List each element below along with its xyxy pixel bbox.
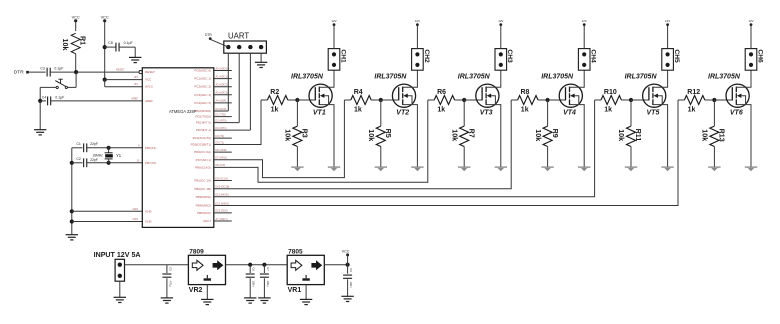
wire node down to switch: [75, 72, 77, 87]
svg-text:AREF: AREF: [131, 97, 138, 100]
transistor VT3 IRL3705N: [476, 84, 499, 107]
svg-text:DTR: DTR: [14, 70, 24, 76]
wire VR1 tab to ground: [305, 285, 307, 299]
svg-text:D0 (RXD): D0 (RXD): [216, 108, 227, 111]
svg-text:1k: 1k: [521, 107, 529, 114]
capacitor C3: [46, 68, 48, 77]
wire UART pin3: [249, 53, 251, 130]
svg-text:10k: 10k: [701, 129, 710, 141]
regulator VR1 7805: [287, 255, 324, 284]
svg-text:CH3: CH3: [506, 49, 513, 63]
switch S1 (reset button): [67, 86, 76, 88]
ground (R3): [291, 166, 303, 168]
svg-text:CH6: CH6: [756, 49, 763, 63]
ground (VT1 source): [328, 166, 340, 168]
wire junction to gate bar: [464, 99, 482, 101]
svg-text:PB1(OC 1A): PB1(OC 1A): [194, 179, 211, 183]
svg-text:1k: 1k: [354, 107, 362, 114]
svg-text:DTR: DTR: [205, 33, 212, 37]
resistor R6: [434, 96, 454, 105]
wire source 3: [486, 105, 501, 167]
svg-text:A3 (ADC3): A3 (ADC3): [216, 92, 228, 95]
wire CH6 to 12V: [750, 26, 752, 49]
crystal Y1: [108, 148, 110, 153]
svg-text:CH5: CH5: [673, 49, 680, 63]
svg-text:R4: R4: [354, 89, 363, 96]
svg-text:C2: C2: [76, 157, 81, 161]
wire rail down: [39, 101, 41, 130]
node gate junction 5: [629, 98, 633, 102]
svg-text:VCC: VCC: [72, 15, 80, 20]
svg-text:D11 (MOSI): D11 (MOSI): [216, 194, 229, 197]
ground (C5): [161, 297, 173, 299]
svg-text:R5: R5: [384, 129, 393, 138]
resistor R12: [684, 96, 704, 105]
capacitor C9: [347, 265, 349, 274]
svg-text:D3 (INT1): D3 (INT1): [216, 127, 227, 130]
resistor R13: [713, 100, 715, 126]
node XTAL2: [107, 161, 111, 165]
node XTAL1: [107, 146, 111, 150]
wire drain 2: [403, 70, 418, 87]
ground (UART): [255, 61, 267, 63]
svg-text:1k: 1k: [688, 107, 696, 114]
svg-text:A0 (ADC0): A0 (ADC0): [216, 67, 228, 70]
resistor R10: [601, 96, 621, 105]
capacitor C8: [105, 46, 116, 48]
svg-text:IRL3705N: IRL3705N: [291, 73, 324, 80]
svg-text:7805: 7805: [288, 249, 303, 256]
wire DTR diagonal: [211, 40, 229, 48]
svg-text:CH2: CH2: [423, 49, 430, 63]
svg-text:R12: R12: [687, 89, 700, 96]
capacitor C5: [166, 265, 168, 273]
connector CH6: [745, 49, 757, 71]
ground (VT5 source): [661, 166, 673, 168]
wire DTR to C3: [29, 71, 46, 73]
wire GND pins: [70, 209, 74, 213]
resistor R4: [351, 96, 371, 105]
resistor R8: [518, 96, 538, 105]
power flag VCC (out): [347, 256, 349, 265]
wire bus D12 to VT6 gate: [213, 100, 678, 206]
svg-text:PB4(MISO): PB4(MISO): [196, 204, 211, 208]
svg-text:GND: GND: [145, 220, 153, 224]
svg-text:10k: 10k: [450, 129, 459, 141]
wire UART pin2: [238, 53, 240, 122]
wire junction to gate bar: [548, 99, 566, 101]
svg-text:16MHz: 16MHz: [92, 154, 103, 158]
svg-text:VCC: VCC: [342, 249, 350, 253]
wire bus D8 to VT3 gate: [213, 100, 428, 182]
svg-text:10k: 10k: [284, 129, 293, 141]
node C7: [262, 263, 266, 267]
ground (C9): [341, 295, 353, 297]
node gate junction 1: [295, 98, 299, 102]
svg-text:12V: 12V: [415, 19, 420, 23]
node gate junction 6: [712, 98, 716, 102]
connector CH3: [495, 49, 507, 71]
wire CH5 to 12V: [667, 26, 669, 49]
svg-text:R3: R3: [301, 129, 310, 138]
ground (C8): [129, 56, 141, 58]
svg-text:R9: R9: [551, 129, 560, 138]
svg-text:PD4(XCK/T0): PD4(XCK/T0): [193, 136, 211, 140]
wire drain 5: [653, 70, 668, 87]
svg-text:12V: 12V: [331, 19, 336, 23]
svg-text:R13: R13: [718, 129, 727, 142]
svg-text:D5 (T1): D5 (T1): [216, 141, 225, 144]
ground (VR1): [300, 298, 312, 300]
svg-text:C7: C7: [266, 267, 270, 271]
node gate junction 4: [546, 98, 550, 102]
svg-text:GND: GND: [132, 218, 138, 221]
svg-text:10k: 10k: [61, 39, 70, 51]
svg-text:VT2: VT2: [396, 109, 409, 116]
svg-text:D10 (OC1B): D10 (OC1B): [216, 186, 230, 189]
svg-text:PB3(MOSI): PB3(MOSI): [196, 195, 211, 199]
svg-text:PC4(ADC 4): PC4(ADC 4): [194, 101, 211, 105]
ground (R11): [625, 166, 637, 168]
power flag 12V (3): [499, 23, 502, 26]
svg-text:A7 (ADC7): A7 (ADC7): [216, 218, 228, 221]
connector CH1: [328, 49, 340, 71]
svg-text:470µ: 470µ: [168, 281, 172, 287]
svg-text:D2 (INT0): D2 (INT0): [216, 119, 227, 122]
svg-text:100n: 100n: [252, 281, 256, 287]
node C6: [248, 263, 252, 267]
svg-text:Y1: Y1: [116, 153, 122, 158]
wire drain 1: [319, 70, 334, 87]
svg-text:A1 (ADC1): A1 (ADC1): [216, 75, 228, 78]
ground (VR2): [201, 298, 213, 300]
wire bus D11 to VT5 gate: [213, 100, 595, 197]
connector CH5: [662, 49, 674, 71]
svg-text:UART: UART: [228, 32, 249, 41]
svg-text:PB6(X1): PB6(X1): [145, 146, 156, 150]
wire source 6: [736, 105, 751, 167]
svg-text:12V: 12V: [665, 19, 670, 23]
svg-text:GND: GND: [132, 208, 138, 211]
svg-text:R7: R7: [467, 129, 476, 138]
node reset junction: [74, 70, 78, 74]
transistor VT2 IRL3705N: [392, 84, 415, 107]
wire C3 to node: [50, 71, 76, 73]
wire UART pin4 to ground: [260, 53, 262, 62]
svg-text:CH4: CH4: [590, 49, 597, 63]
svg-text:VR1: VR1: [288, 287, 302, 294]
svg-text:+5V: +5V: [133, 76, 138, 79]
svg-text:D1 (TXD): D1 (TXD): [216, 113, 227, 116]
capacitor C7: [263, 265, 265, 273]
svg-text:1k: 1k: [604, 107, 612, 114]
svg-text:VCC: VCC: [145, 78, 152, 82]
wire R1 to reset node: [75, 54, 77, 72]
svg-text:0.1µF: 0.1µF: [54, 67, 63, 71]
svg-text:7809: 7809: [189, 249, 204, 256]
svg-text:PB7(X2): PB7(X2): [145, 161, 156, 165]
svg-text:10k: 10k: [367, 129, 376, 141]
svg-text:C5: C5: [168, 267, 172, 271]
svg-text:VR2: VR2: [189, 287, 203, 294]
resistor R11: [630, 100, 632, 126]
wire VR2 tab to ground: [206, 285, 208, 299]
wire gate 4: [511, 99, 517, 101]
wire XTAL1 to IC: [109, 147, 143, 149]
svg-text:100µ: 100µ: [266, 281, 270, 287]
ground (VT4 source): [578, 166, 590, 168]
wire source 2: [403, 105, 418, 167]
wire CH3 to 12V: [500, 26, 502, 49]
wire VCC rail down: [104, 22, 106, 80]
wire C8 to ground: [119, 46, 135, 48]
ground (R5): [375, 166, 387, 168]
wire junction to gate bar: [631, 99, 649, 101]
svg-text:R11: R11: [634, 129, 643, 142]
svg-text:PD2(INT 0): PD2(INT 0): [196, 121, 211, 125]
svg-text:IRL3705N: IRL3705N: [458, 73, 491, 80]
svg-text:12V: 12V: [582, 19, 587, 23]
power flag 12V (1): [333, 23, 336, 26]
regulator VR2 7809: [188, 255, 225, 284]
svg-text:VT6: VT6: [730, 109, 743, 116]
svg-text:D6 (AIN0): D6 (AIN0): [216, 149, 227, 152]
svg-text:0.1µF: 0.1µF: [55, 95, 64, 99]
svg-text:CH1: CH1: [339, 49, 346, 63]
svg-text:PD5(OC0B/T1): PD5(OC0B/T1): [191, 143, 211, 147]
ground (C6): [244, 297, 256, 299]
wire UART pin1: [227, 53, 229, 111]
connector UART: [224, 41, 267, 53]
transistor VT6 IRL3705N: [726, 84, 749, 107]
node C8 junction: [103, 45, 107, 49]
svg-text:PC3(ADC 3): PC3(ADC 3): [194, 93, 211, 97]
wire source 5: [653, 105, 668, 167]
wire switch to C4 rail: [40, 86, 56, 88]
svg-text:C8: C8: [108, 41, 113, 45]
svg-text:PD7(AIN 1): PD7(AIN 1): [196, 158, 211, 162]
wire junction to gate bar: [381, 99, 399, 101]
svg-text:PB5(SCK): PB5(SCK): [197, 211, 211, 215]
ground (input): [114, 296, 126, 298]
capacitor C1: [72, 147, 83, 149]
wire source 4: [570, 105, 585, 167]
power flag 12V (6): [750, 23, 753, 26]
svg-text:A4 (SDA): A4 (SDA): [216, 100, 227, 103]
wire input to regulator: [125, 264, 189, 266]
svg-text:ATMEGA 328P: ATMEGA 328P: [169, 109, 197, 114]
ground (VT3 source): [495, 166, 507, 168]
svg-text:PC2(ADC 2): PC2(ADC 2): [194, 85, 211, 89]
svg-text:PC1(ADC 1): PC1(ADC 1): [194, 77, 211, 81]
svg-text:R10: R10: [604, 89, 617, 96]
svg-text:R1: R1: [79, 36, 88, 45]
ground (R9): [541, 166, 553, 168]
power flag 12V (2): [416, 23, 419, 26]
svg-text:C9: C9: [349, 268, 353, 272]
ground (reset rail): [34, 129, 46, 131]
svg-text:RESET: RESET: [145, 70, 155, 74]
wire drain 4: [570, 70, 585, 87]
capacitor C6: [249, 265, 251, 273]
wire gate 2: [344, 99, 350, 101]
svg-text:10k: 10k: [534, 129, 543, 141]
resistor R2: [267, 96, 287, 105]
svg-text:C6: C6: [252, 267, 256, 271]
svg-text:1k: 1k: [437, 107, 445, 114]
connector CH4: [578, 49, 590, 71]
svg-text:AREF: AREF: [145, 99, 153, 103]
svg-text:VCC: VCC: [101, 15, 109, 20]
svg-text:INPUT 12V 5A: INPUT 12V 5A: [94, 251, 141, 259]
svg-text:VT4: VT4: [563, 109, 576, 116]
wire bus D10 to VT4 gate: [213, 100, 511, 189]
power flag 12V (4): [583, 23, 586, 26]
node gate junction 2: [379, 98, 383, 102]
svg-text:VT1: VT1: [313, 109, 326, 116]
ground (R13): [708, 166, 720, 168]
ground (VT2 source): [411, 166, 423, 168]
ground (R7): [458, 166, 470, 168]
wire CH4 to 12V: [583, 26, 585, 49]
svg-text:D12 (MISO): D12 (MISO): [216, 202, 230, 205]
node gate junction 3: [462, 98, 466, 102]
transistor VT1 IRL3705N: [309, 84, 332, 107]
svg-text:GND: GND: [145, 209, 153, 213]
resistor R9: [547, 100, 549, 126]
svg-text:ADC7: ADC7: [203, 219, 211, 223]
svg-text:VT3: VT3: [480, 109, 493, 116]
svg-text:22pF: 22pF: [90, 142, 98, 146]
svg-text:12V: 12V: [748, 19, 753, 23]
node C4 left junction: [38, 99, 42, 103]
svg-text:PD3(INT 1): PD3(INT 1): [196, 128, 211, 132]
svg-text:PB0(CLKO): PB0(CLKO): [195, 165, 211, 169]
node VCC out: [346, 263, 350, 267]
svg-text:100n: 100n: [349, 282, 353, 288]
power flag 12V (5): [666, 23, 669, 26]
svg-text:PC0(ADC 0): PC0(ADC 0): [194, 69, 211, 73]
node VCC pin junction: [103, 78, 107, 82]
wire to IC VCC: [105, 79, 143, 81]
svg-text:AVCC: AVCC: [145, 85, 154, 89]
resistor R7: [463, 100, 465, 126]
wire input pin2 to ground: [119, 281, 121, 297]
ground (VT6 source): [745, 166, 757, 168]
svg-text:R8: R8: [521, 89, 530, 96]
svg-text:IRL3705N: IRL3705N: [374, 73, 407, 80]
wire gate 5: [595, 99, 601, 101]
transistor VT5 IRL3705N: [643, 84, 666, 107]
wire VR1 out: [324, 264, 347, 266]
resistor R1: [71, 33, 80, 53]
wire C4 to IC AREF: [51, 100, 143, 102]
wire to IC AVCC: [104, 80, 106, 87]
svg-text:22pF: 22pF: [90, 158, 98, 162]
ground (IC gnd rail): [66, 234, 78, 236]
svg-text:D8 (ICP): D8 (ICP): [216, 164, 226, 167]
svg-text:C4: C4: [42, 95, 47, 99]
svg-text:R2: R2: [270, 89, 279, 96]
wire drain 3: [486, 70, 501, 87]
svg-text:D9 (OC1A): D9 (OC1A): [216, 177, 229, 180]
wire VCC to R1: [75, 22, 77, 31]
svg-text:12V: 12V: [498, 19, 503, 23]
svg-text:PB2(OC 1B): PB2(OC 1B): [194, 187, 211, 191]
svg-text:IRL3705N: IRL3705N: [541, 73, 574, 80]
ground (C7): [258, 297, 270, 299]
op-amp U1: ATMEGA 328P MCU: [142, 68, 214, 228]
wire reset node to IC RESET pin: [76, 71, 139, 73]
svg-text:1k: 1k: [271, 107, 279, 114]
wire gate 3: [428, 99, 434, 101]
resistor R3: [296, 100, 298, 126]
svg-text:D13 (SCK): D13 (SCK): [216, 210, 228, 213]
svg-text:C1: C1: [76, 142, 81, 146]
resistor R5: [380, 100, 382, 126]
wire XTAL2 to IC: [109, 162, 143, 164]
connector CH2: [412, 49, 424, 71]
wire VR2 out: [226, 264, 288, 266]
svg-text:D4 (T0): D4 (T0): [216, 135, 225, 138]
svg-text:R6: R6: [437, 89, 446, 96]
svg-text:IRL3705N: IRL3705N: [708, 73, 741, 80]
wire gate 1: [261, 99, 267, 101]
wire junction to gate bar: [714, 99, 732, 101]
svg-text:A2 (ADC2): A2 (ADC2): [216, 84, 228, 87]
capacitor C4: [40, 100, 46, 102]
wire crystal left rail: [71, 148, 73, 235]
transistor VT4 IRL3705N: [559, 84, 582, 107]
wire gate 6: [678, 99, 684, 101]
svg-text:PD1(TXD0): PD1(TXD0): [195, 115, 211, 119]
svg-text:D7 (AIN1): D7 (AIN1): [216, 157, 227, 160]
wire CH1 to 12V: [333, 26, 335, 49]
svg-text:PD0(RXD0): PD0(RXD0): [195, 109, 211, 113]
connector X1 input: [115, 259, 124, 281]
svg-text:IRL3705N: IRL3705N: [625, 73, 658, 80]
svg-text:PD6(OC 0A): PD6(OC 0A): [194, 150, 211, 154]
wire CH2 to 12V: [416, 26, 418, 49]
wire source 1: [319, 105, 334, 167]
svg-text:0.1µF: 0.1µF: [124, 41, 133, 45]
capacitor C2: [70, 161, 74, 165]
wire bus D5 to VT1 gate: [213, 100, 261, 145]
svg-text:C3: C3: [40, 67, 45, 71]
svg-text:+5V: +5V: [133, 83, 138, 86]
svg-text:RESET: RESET: [116, 69, 125, 72]
svg-text:VT5: VT5: [647, 109, 660, 116]
RESET pin inversion circle: [139, 71, 142, 74]
svg-text:10k: 10k: [617, 129, 626, 141]
wire junction to gate bar: [297, 99, 315, 101]
wire bus D7 to VT2 gate: [213, 100, 344, 178]
wire drain 6: [736, 70, 751, 87]
